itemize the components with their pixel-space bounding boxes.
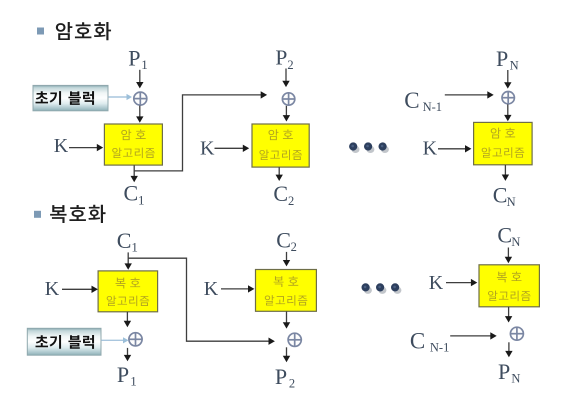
node C1 input (bottom) <box>117 228 138 254</box>
svg-text:N: N <box>511 235 520 249</box>
svg-text:N-1: N-1 <box>423 100 442 114</box>
wire decrypt box 1 to XOR B1 <box>124 312 131 327</box>
XOR gate T3 <box>502 92 514 104</box>
encrypt box U1 (암호 알고리즘) <box>104 124 162 165</box>
decrypt box U6 (복호 알고리즘) <box>479 265 539 307</box>
svg-text:1: 1 <box>138 192 145 207</box>
wire initial block to XOR1 (light) <box>109 94 132 100</box>
wire XOR B2 to P2 <box>283 347 290 362</box>
svg-text:K: K <box>429 272 444 294</box>
node K (key) T3 <box>423 138 438 160</box>
svg-text:2: 2 <box>289 376 295 390</box>
encrypt box U3 (암호 알고리즘) <box>474 122 532 164</box>
svg-text:P: P <box>275 364 287 389</box>
wire K to encrypt box 2 <box>215 145 250 152</box>
svg-text:C: C <box>493 183 508 208</box>
node CN-1 (previous ciphertext) bottom <box>410 328 449 354</box>
wire CN-1 to XOR3 <box>445 91 494 98</box>
ellipsis dots (bottom row) <box>362 283 402 294</box>
XOR gate B1 <box>129 333 142 346</box>
wire feedback C1 to XOR2 <box>134 91 267 171</box>
node CN-1 (previous ciphertext) top <box>404 88 442 114</box>
wire encrypt box 3 to CN <box>502 165 509 181</box>
svg-text:1: 1 <box>141 57 148 72</box>
wire C1 to decrypt box 1 <box>125 252 132 269</box>
node K (key) B3 <box>429 272 444 294</box>
svg-text:N: N <box>510 58 519 72</box>
wire XOR3 to encrypt box 3 <box>504 104 511 121</box>
svg-text:2: 2 <box>291 240 297 254</box>
node CN (ciphertext block N) <box>493 183 516 209</box>
node P2 output (bottom) <box>275 364 295 391</box>
wire K to encrypt box 3 <box>438 145 471 152</box>
encrypt box U2 (암호 알고리즘) <box>252 124 309 167</box>
wire XOR B3 to PN <box>505 342 512 357</box>
wire encrypt box 2 to C2 <box>276 167 283 181</box>
svg-text:C: C <box>404 88 419 113</box>
svg-text:K: K <box>423 138 438 160</box>
svg-text:2: 2 <box>288 194 294 208</box>
svg-text:C: C <box>117 228 132 253</box>
wire decrypt box 2 to XOR B2 <box>283 311 290 328</box>
node C2 (ciphertext block 2) <box>273 181 294 208</box>
svg-text:1: 1 <box>130 374 137 389</box>
svg-text:C: C <box>276 227 291 252</box>
node P1 (plaintext block 1) <box>128 45 148 72</box>
svg-text:K: K <box>200 138 215 160</box>
wire CN to decrypt box 3 <box>505 248 512 264</box>
wire C2 to decrypt box 2 <box>283 252 290 267</box>
node PN output (bottom) <box>498 359 520 386</box>
node K (key) T2 <box>200 138 215 160</box>
svg-text:P: P <box>496 46 508 71</box>
node C2 input (bottom) <box>276 227 297 254</box>
wire PN to XOR3 <box>504 70 511 89</box>
node CN input (bottom) <box>497 222 520 249</box>
XOR gate B3 <box>510 327 523 340</box>
svg-text:C: C <box>497 222 512 247</box>
svg-text:P: P <box>117 362 129 387</box>
node C1 (ciphertext block 1) <box>124 180 145 207</box>
node P2 (plaintext block 2) <box>275 45 293 72</box>
wire K to decrypt box 3 <box>446 279 477 286</box>
XOR gate B2 <box>288 333 301 346</box>
wire feedback C1 to XOR B2 <box>128 258 275 345</box>
wire CN-1 to XOR B3 <box>450 332 497 339</box>
wire XOR2 to cipher box 2 <box>283 106 290 122</box>
node K (key) T1 <box>54 135 69 157</box>
svg-text:P: P <box>275 45 287 69</box>
wire XOR1 to cipher box 1 <box>136 106 143 123</box>
wire K to encrypt box 1 <box>69 144 103 151</box>
svg-text:2: 2 <box>287 58 293 72</box>
svg-text:1: 1 <box>131 240 138 255</box>
svg-text:N-1: N-1 <box>430 341 449 355</box>
section bullet: decryption <box>34 211 41 218</box>
XOR gate T1 <box>134 92 147 105</box>
svg-text:K: K <box>204 278 219 300</box>
ellipsis dots (top row) <box>349 142 389 153</box>
svg-text:N: N <box>507 195 516 209</box>
decrypt box U5 (복호 알고리즘) <box>256 270 317 312</box>
node P1 output (bottom) <box>117 362 137 389</box>
initial block box (초기 블럭) bottom <box>27 328 101 355</box>
XOR gate T2 <box>282 93 294 105</box>
svg-text:K: K <box>45 278 60 300</box>
svg-text:C: C <box>124 180 139 205</box>
heading: 암호화 (encryption) <box>56 22 111 40</box>
wire P2 to XOR2 <box>282 69 289 88</box>
node PN (plaintext block N) <box>496 46 519 73</box>
svg-text:C: C <box>410 328 425 353</box>
initial block box (초기 블럭) top <box>33 85 108 110</box>
wire encrypt box 1 to C1 <box>131 165 138 182</box>
svg-text:P: P <box>128 45 140 70</box>
wire K to decrypt box 1 <box>62 286 98 293</box>
svg-text:K: K <box>54 135 69 157</box>
svg-text:P: P <box>498 359 510 384</box>
wire XOR B1 to P1 <box>124 348 131 361</box>
decrypt box U4 (복호 알고리즘) <box>98 271 158 312</box>
svg-text:C: C <box>273 181 288 206</box>
node K (key) B1 <box>45 278 60 300</box>
svg-text:N: N <box>511 371 520 385</box>
section bullet: encryption <box>37 28 44 35</box>
heading: 복호화 (decryption) <box>50 205 105 223</box>
node K (key) B2 <box>204 278 219 300</box>
wire decrypt box 3 to XOR B3 <box>505 307 512 323</box>
wire K to decrypt box 2 <box>221 285 254 292</box>
wire P1 to XOR1 <box>136 70 143 89</box>
wire initial block to XOR B1 (light) <box>101 337 128 343</box>
